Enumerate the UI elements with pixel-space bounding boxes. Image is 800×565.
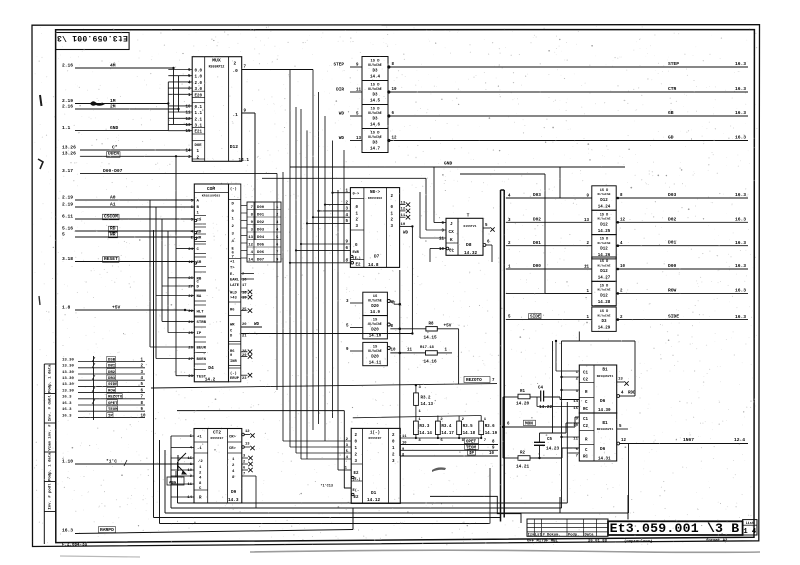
svg-text:IP: IP [197, 332, 202, 336]
flip-flop D8 body [446, 218, 483, 255]
wire GND [75, 129, 168, 131]
svg-text:(E-): (E-) [353, 256, 361, 260]
D6 R pin feeds [562, 389, 580, 391]
svg-text:1.1: 1.1 [62, 125, 71, 131]
svg-text:(-): (-) [230, 187, 237, 192]
svg-text:14.17: 14.17 [441, 432, 454, 436]
GND rail 2 [262, 177, 426, 179]
svg-text:12: 12 [401, 208, 406, 212]
svg-text:STRB: STRB [197, 321, 207, 325]
REZOTO wire [151, 384, 497, 388]
D20 output bubble [387, 300, 390, 303]
svg-text:CT2: CT2 [213, 431, 221, 436]
svg-text:ERUP: ERUP [230, 377, 240, 381]
wire CSCOM [75, 218, 194, 220]
decoder D1 body [351, 428, 400, 503]
svg-text:WR: WR [230, 323, 235, 327]
gate D20 14.9 [363, 292, 388, 315]
boxed label RD [109, 226, 118, 232]
svg-text:1N67: 1N67 [683, 437, 694, 443]
svg-text:13: 13 [356, 137, 361, 141]
D4 left ladder vertical b [155, 207, 157, 359]
svg-text:R6: R6 [230, 308, 235, 312]
boxed label SIDE mid [529, 313, 542, 318]
gate D20 14.10 [363, 316, 388, 339]
boxed label CSCOM [103, 214, 120, 220]
svg-text:D12: D12 [600, 199, 608, 203]
svg-text:13.30: 13.30 [62, 389, 74, 393]
driver D12 14.26 [592, 235, 616, 259]
svg-text:16.3: 16.3 [735, 110, 746, 116]
svg-text:# Dokum.: # Dokum. [543, 532, 561, 537]
resistor R8 row [399, 328, 402, 331]
rail end riser [489, 468, 491, 524]
D20 output bubble [387, 323, 390, 326]
svg-text:KLYuChE: KLYuChE [368, 299, 381, 303]
wire *1'C stub at D1 [344, 487, 351, 489]
table row D05 [247, 239, 281, 241]
svg-text:DIR: DIR [336, 88, 344, 93]
svg-text:DB2: DB2 [108, 371, 116, 375]
svg-text:J: J [450, 222, 453, 227]
svg-text:4M: 4M [110, 62, 116, 68]
D7 outputs with X [400, 204, 406, 206]
svg-text:D12: D12 [600, 270, 608, 274]
D4 pin21 wire [241, 333, 413, 335]
svg-text:RC: RC [583, 408, 588, 412]
list wire DB2 [78, 373, 145, 375]
svg-text:D01: D01 [533, 241, 541, 246]
driver D12 14.24 [592, 186, 616, 210]
svg-text:(napravlenuj: (napravlenuj [624, 539, 652, 544]
boxed label MON [524, 420, 536, 425]
svg-text:K555IR16: K555IR16 [368, 197, 382, 200]
gate output wire WD [387, 139, 390, 142]
svg-text:5: 5 [62, 231, 65, 237]
svg-text:CS: CS [197, 219, 202, 223]
wire +5V [75, 309, 185, 311]
svg-text:14.25: 14.25 [598, 230, 611, 234]
svg-text:1.10: 1.10 [62, 458, 73, 464]
svg-text:6.11: 6.11 [62, 213, 73, 219]
svg-text:14.13: 14.13 [421, 403, 434, 407]
svg-text:13.30: 13.30 [62, 377, 74, 381]
driver output wire D02 [617, 221, 620, 224]
MON wire [503, 426, 575, 428]
svg-text:DB1: DB1 [108, 365, 116, 369]
D4 left pin dividers [194, 215, 206, 217]
svg-text:K: K [450, 238, 453, 243]
svg-text:2.16: 2.16 [62, 103, 73, 109]
svg-text:14.3: 14.3 [228, 498, 239, 503]
svg-text:WD: WD [254, 323, 259, 327]
slash mark on *1'C wire [124, 460, 127, 466]
bus wire vertical [343, 150, 345, 262]
svg-text:D6: D6 [600, 399, 606, 404]
svg-text:OFF MI79F MBL: OFF MI79F MBL [527, 540, 558, 544]
svg-text:HLT: HLT [197, 310, 205, 314]
list wire DB3 [78, 379, 145, 381]
D12 DOE stubs [180, 149, 192, 151]
svg-text:10: 10 [141, 414, 146, 418]
svg-text:16.3: 16.3 [735, 61, 746, 67]
bottom scan smudge [250, 550, 760, 552]
wire A1 [75, 206, 194, 208]
list wire DSB [78, 361, 145, 363]
svg-text:23: 23 [242, 377, 247, 381]
svg-text:.1: .1 [233, 113, 239, 118]
svg-text:ABG: ABG [169, 482, 177, 486]
D6 RDD output [617, 395, 620, 398]
svg-text:BEUR: BEUR [197, 347, 207, 351]
svg-text:COM: COM [207, 186, 216, 192]
driver input D02 [506, 221, 592, 223]
svg-text:(-): (-) [230, 371, 237, 376]
svg-text:K555KP12: K555KP12 [209, 65, 225, 69]
wire DDEN [80, 155, 180, 157]
svg-text:E(-: E(- [353, 488, 360, 493]
svg-text:STEP: STEP [668, 61, 679, 67]
driver output wire SIDE [617, 318, 620, 321]
svg-text:BOEN: BOEN [197, 358, 207, 362]
svg-text:K555ID7: K555ID7 [369, 436, 382, 440]
D4 left ladder vertical e [175, 237, 177, 376]
svg-text:1.1: 1.1 [195, 112, 203, 116]
bottom rail 5 [160, 523, 491, 525]
driver output wire D03 [617, 197, 620, 200]
D4 pin stub rows [176, 199, 194, 201]
svg-text:1(-): 1(-) [370, 431, 380, 436]
svg-text:TEOM: TEOM [108, 408, 118, 412]
D6 output 5 loop [617, 428, 628, 430]
strip divider [44, 422, 55, 424]
svg-text:Et3.059.001 \3: Et3.059.001 \3 [57, 33, 128, 43]
svg-text:14.31: 14.31 [598, 458, 611, 462]
D7 E2 bubble [351, 262, 354, 265]
resistor top rail [353, 416, 481, 418]
svg-text:D00: D00 [533, 264, 541, 269]
ROW feed elbow [545, 292, 592, 294]
gate output wire WD [387, 114, 390, 117]
svg-text:GND: GND [444, 161, 453, 167]
svg-text:GD: GD [668, 135, 674, 141]
svg-text:.0: .0 [233, 69, 239, 74]
strip divider [44, 481, 55, 483]
svg-text:2: 2 [234, 62, 237, 67]
svg-text:EARL: EARL [230, 279, 240, 283]
list crossing vertical [93, 356, 95, 420]
boxed label IP [468, 450, 476, 455]
svg-text:+5V: +5V [444, 323, 452, 328]
svg-text:14.29: 14.29 [598, 327, 611, 331]
svg-text:R3.4: R3.4 [441, 425, 451, 429]
svg-text:KLYuChE: KLYuChE [598, 217, 611, 221]
svg-text:R1: R1 [520, 390, 525, 394]
svg-text:D20: D20 [371, 305, 379, 309]
svg-text:D12: D12 [600, 248, 608, 252]
darker flecks [46, 30, 744, 534]
list wire DB1 [78, 367, 145, 369]
svg-text:10: 10 [392, 88, 397, 92]
list wire TEOM [78, 410, 145, 412]
svg-text:2.19: 2.19 [62, 98, 73, 104]
D4 sub column dividers [229, 199, 241, 201]
svg-text:14.28: 14.28 [598, 301, 611, 305]
svg-text:R3.3: R3.3 [419, 425, 429, 429]
svg-text:2.19: 2.19 [62, 194, 73, 200]
margin tick [38, 159, 43, 169]
svg-text:2.19: 2.19 [62, 201, 73, 207]
svg-text:SIDE: SIDE [668, 314, 679, 320]
svg-text:D07: D07 [257, 258, 265, 262]
svg-text:11: 11 [402, 435, 407, 439]
R1 rail vertical [502, 397, 504, 458]
D20 input [350, 302, 363, 304]
svg-text:KLYuChE: KLYuChE [368, 63, 381, 67]
gate output wire STEP [387, 65, 390, 68]
gate input STEP [350, 66, 362, 68]
list wire IP [78, 417, 145, 419]
svg-text:14.5: 14.5 [370, 100, 380, 104]
svg-text:DB3: DB3 [108, 377, 116, 381]
svg-text:>43: >43 [230, 296, 237, 301]
svg-text:CR>: CR> [229, 446, 236, 451]
OPET wire [400, 444, 498, 446]
resistor R3.3 [415, 416, 417, 422]
wire C* [80, 149, 180, 151]
svg-text:KLYuChE: KLYuChE [598, 241, 611, 245]
transistor to ABG link [175, 471, 177, 477]
svg-text:7: 7 [243, 473, 245, 477]
svg-text:11: 11 [401, 214, 406, 218]
svg-text:D12: D12 [230, 144, 239, 150]
svg-text:KLYuChE: KLYuChE [368, 111, 381, 115]
svg-text:RC: RC [583, 456, 588, 460]
D4 X-marked stubs [241, 291, 248, 293]
svg-text:IP: IP [108, 414, 113, 418]
D12 input stub ladder [168, 69, 192, 71]
D6 pin13 X output [617, 381, 624, 383]
svg-text:CR>: CR> [229, 435, 236, 440]
D4 WD output wire [241, 326, 262, 328]
D1 input wires [283, 440, 351, 442]
svg-text:14.22: 14.22 [539, 405, 553, 410]
riser x165 [164, 450, 166, 513]
svg-text:B1: B1 [602, 421, 608, 426]
svg-text:D02: D02 [533, 218, 541, 223]
bus top cap [501, 189, 505, 191]
driver gate D3 14.5 [362, 81, 388, 105]
controller D4 body [194, 184, 228, 382]
driver D12 14.28 [592, 281, 616, 305]
GND rail [290, 166, 625, 168]
driver gate D3 14.6 [362, 105, 388, 129]
D20 vertical collector [399, 270, 401, 456]
svg-text:F.2.084-3a: F.2.084-3a [62, 544, 87, 548]
svg-text:KLYuChE: KLYuChE [598, 288, 611, 292]
C4 lower stub [537, 406, 558, 408]
svg-text:CX: CX [449, 230, 455, 235]
svg-text:C2: C2 [583, 379, 588, 383]
svg-text:GB: GB [668, 110, 674, 116]
svg-text:10: 10 [489, 452, 494, 456]
bus wire vertical [295, 107, 297, 453]
svg-text:13: 13 [245, 443, 250, 447]
bus wire vertical [306, 130, 308, 459]
svg-text:K555IE7: K555IE7 [211, 436, 224, 440]
svg-text:Inv. # dubl: Inv. # dubl [48, 395, 53, 422]
svg-text:NA: NA [197, 295, 202, 299]
wire 1M [75, 103, 168, 105]
D20 input [350, 350, 363, 352]
boxed label OPET [465, 438, 479, 444]
gate input WD [350, 115, 362, 117]
svg-text:ROW: ROW [668, 287, 677, 293]
svg-text:14.27: 14.27 [598, 277, 611, 281]
svg-text:D00: D00 [668, 263, 677, 269]
svg-text:WR: WR [197, 237, 202, 241]
SIDE block drop [578, 332, 580, 342]
strip divider [44, 363, 55, 365]
rail x567 [566, 402, 568, 503]
svg-text:R8: R8 [429, 323, 434, 327]
svg-text:CL: CL [449, 250, 454, 254]
svg-text:14.12: 14.12 [367, 498, 381, 503]
title block small table [527, 519, 608, 536]
riser x153.5 [153, 230, 155, 518]
svg-text:14.20: 14.20 [516, 402, 530, 407]
list wire SIDE [78, 385, 145, 387]
boxed label DDEN [107, 152, 121, 158]
svg-text:D1: D1 [371, 491, 377, 496]
svg-text:DSB: DSB [108, 358, 116, 362]
D9 right pin boxes [228, 441, 242, 443]
boxed label RESET [103, 257, 120, 263]
driver input D00 [506, 268, 592, 270]
riser x177.5 [177, 462, 179, 503]
strip divider [44, 511, 55, 513]
svg-text:T>: T> [230, 266, 235, 271]
D9 outputs 1248 [242, 457, 248, 459]
svg-text:14.16: 14.16 [424, 360, 438, 365]
svg-text:13.30: 13.30 [62, 371, 74, 375]
svg-text:1M: 1M [110, 98, 116, 104]
GND drop to JK b [433, 167, 435, 223]
resistor R17.18 row [399, 352, 402, 355]
driver input D03 [506, 197, 592, 199]
margin tick [40, 95, 42, 106]
svg-text:E2: E2 [356, 263, 361, 267]
svg-text:15: 15 [573, 407, 578, 411]
CT2 left feed stubs [171, 435, 185, 437]
R3 bottom rail [400, 437, 481, 439]
driver output wire ROW [617, 292, 620, 295]
list wire REZOTO [78, 398, 145, 400]
counter D9 body [194, 429, 242, 504]
+5V drop from R8 [458, 329, 460, 384]
inner border frame [56, 30, 755, 543]
svg-text:16.3: 16.3 [62, 408, 72, 412]
svg-text:NB->: NB-> [370, 190, 380, 195]
resistor R3.6 [480, 416, 482, 422]
resistor R2 [503, 457, 518, 459]
boxed label TEOM [465, 444, 479, 450]
driver input D01 [506, 245, 592, 247]
svg-text:R3.6: R3.6 [485, 425, 495, 429]
capacitor C5 [534, 441, 545, 443]
wire RARPD [75, 530, 353, 534]
bus wire vertical [276, 173, 278, 390]
D4 LATE stub [241, 278, 254, 280]
DDEN drop to D4 ladder [175, 155, 177, 157]
bus bar vertical double line [500, 190, 502, 522]
resistor R1 [503, 396, 518, 398]
svg-text:KLYuChE: KLYuChE [368, 87, 381, 91]
svg-text:5.16: 5.16 [62, 225, 73, 231]
svg-text:EWR: EWR [353, 251, 360, 255]
svg-text:REZOTO: REZOTO [108, 396, 123, 400]
D1 left pins [351, 463, 362, 465]
svg-text:KLYuChE: KLYuChE [598, 263, 611, 267]
D12 DOE box [192, 140, 205, 142]
D8 input wires [434, 222, 446, 224]
table row D06 [247, 246, 281, 248]
svg-text:0.1: 0.1 [195, 106, 203, 110]
bus wire vertical [337, 190, 339, 272]
svg-text:14.14: 14.14 [419, 432, 432, 436]
bottom scan smudge 2 [60, 556, 140, 557]
svg-text:14.7: 14.7 [370, 148, 380, 152]
svg-text:R2: R2 [520, 452, 525, 456]
ink smudge on 1M wire [90, 101, 105, 106]
D7 left pin boxes [350, 198, 364, 200]
driver D3 14.29 [592, 307, 616, 331]
timer D6 lower body [579, 413, 616, 461]
svg-text:14.1: 14.1 [239, 158, 250, 163]
svg-text:D12: D12 [600, 223, 608, 227]
svg-text:14.18: 14.18 [463, 432, 476, 436]
svg-text:14.10: 14.10 [369, 335, 382, 339]
svg-text:17: 17 [242, 284, 246, 288]
D9 CR outputs [242, 433, 245, 436]
D4 input bubbles [194, 219, 196, 221]
list box [743, 520, 757, 535]
svg-text:KLYuChE: KLYuChE [598, 192, 611, 196]
driver output wire D01 [617, 244, 620, 247]
bus wire vertical [318, 92, 320, 424]
svg-text:IP: IP [469, 452, 474, 456]
bus wire vertical [300, 109, 302, 459]
svg-text:11: 11 [356, 89, 361, 93]
svg-text:E2: E2 [354, 496, 359, 500]
D4 left ladder vertical d [167, 231, 169, 333]
svg-text:GND: GND [110, 125, 119, 131]
svg-text:21: 21 [242, 334, 247, 338]
IP wire [400, 455, 498, 457]
svg-text:RARPD: RARPD [100, 527, 114, 533]
bus wire vertical [332, 141, 334, 419]
D1 output wires [399, 437, 401, 439]
svg-text:16.3: 16.3 [735, 263, 746, 269]
svg-text:D03: D03 [668, 192, 677, 198]
wire RD [75, 230, 194, 232]
D6 upper pins [579, 382, 594, 384]
svg-text:Podp. i data: Podp. i data [48, 364, 53, 393]
svg-text:Inv. # podl: Inv. # podl [48, 483, 53, 510]
bottom rail 2 [171, 507, 562, 509]
ink smudge mid [432, 467, 446, 472]
svg-text:2.16: 2.16 [62, 62, 73, 68]
